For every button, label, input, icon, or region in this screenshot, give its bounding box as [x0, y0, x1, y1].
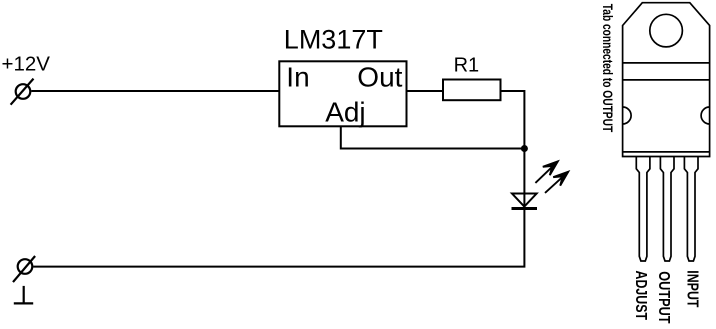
svg-text:LM317T: LM317T [284, 24, 383, 54]
svg-text:Tab connected to OUTPUT: Tab connected to OUTPUT [600, 4, 616, 133]
svg-text:ADJUST: ADJUST [633, 271, 651, 321]
svg-text:INPUT: INPUT [684, 270, 702, 308]
svg-text:+12V: +12V [2, 52, 51, 75]
svg-text:R1: R1 [454, 54, 480, 76]
svg-text:OUTPUT: OUTPUT [655, 271, 673, 323]
svg-text:In: In [286, 61, 309, 92]
svg-text:Out: Out [357, 61, 402, 92]
svg-text:Adj: Adj [325, 97, 365, 128]
